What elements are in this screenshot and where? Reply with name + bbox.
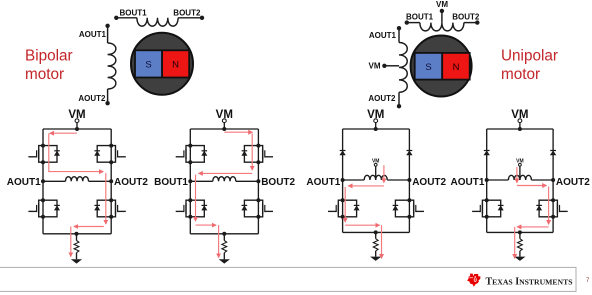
wire: right rail lower (bridge 4) <box>552 217 554 233</box>
node: VM terminal circle (bridge 3) <box>374 119 378 123</box>
wire: VM feed (bridge 3) <box>375 123 377 129</box>
junction: BOUT2 node dot (bridge 2) <box>256 179 260 183</box>
svg-text:AOUT2: AOUT2 <box>368 94 396 103</box>
svg-text:Unipolar: Unipolar <box>501 47 558 64</box>
wire: centre tap feed (bridge 4) <box>519 166 521 180</box>
wire: left rail lower (bridge 3) <box>342 217 344 233</box>
wire: bipolar phase B lead left <box>116 17 137 19</box>
wire: right rail lower (bridge 3) <box>408 217 410 233</box>
junction: VM node dot (bridge 3) <box>374 127 378 131</box>
magnet S pole (bipolar) <box>135 50 162 77</box>
svg-text:motor: motor <box>25 66 64 83</box>
wire: sense resistor bottom lead (bridge 3) <box>375 251 377 257</box>
svg-text:BOUT1: BOUT1 <box>120 9 148 18</box>
node: AOUT1 terminal <box>105 24 109 28</box>
svg-text:S: S <box>145 60 151 71</box>
junction: AOUT2 node dot (bridge 4) <box>551 178 555 182</box>
transistor: low-side left MOSFET (bridge 2) <box>176 198 208 219</box>
node: phase A VM tap <box>382 64 386 68</box>
wire: bipolar phase A top lead <box>107 26 109 43</box>
transistor: low-side right MOSFET (bridge 1) <box>94 198 126 219</box>
current path: down through sense resistor to ground (bridge 3) <box>381 225 383 258</box>
transistor: low-side left MOSFET (bridge 1) <box>28 198 60 219</box>
wire: winding wire left (bridge 4) <box>487 179 509 181</box>
ground (bridge 2) <box>219 259 230 263</box>
node: BOUT1 terminal <box>114 16 118 20</box>
wire: VM feed (bridge 2) <box>223 123 225 129</box>
diode: left clamp diode (bridge 4) <box>484 151 490 156</box>
svg-text:VM: VM <box>436 0 448 9</box>
node: centre tap VM circle (bridge 4) <box>519 163 522 166</box>
wire: right rail mid (bridge 2) <box>257 162 259 200</box>
junction: BOUT1 node dot (bridge 2) <box>188 179 192 183</box>
rotor: unipolar motor body <box>411 36 472 97</box>
svg-text:BOUT2: BOUT2 <box>261 177 295 188</box>
junction: AOUT2 node dot (bridge 1) <box>109 179 113 183</box>
svg-text:motor: motor <box>501 66 540 83</box>
svg-text:VM: VM <box>369 62 381 71</box>
transistor: high-side right MOSFET (bridge 2) <box>241 144 273 165</box>
svg-text:AOUT1: AOUT1 <box>7 177 41 188</box>
junction: VM node dot (bridge 4) <box>518 127 522 131</box>
inductor: motor winding (bridge 3) <box>364 175 387 180</box>
ground (bridge 1) <box>71 259 82 263</box>
ground (bridge 3) <box>370 257 381 261</box>
inductor: motor winding (bridge 2) <box>213 177 236 182</box>
wire: unipolar phase B lead right <box>464 22 477 24</box>
magnet N pole (bipolar) <box>162 50 189 77</box>
resistor: current sense (bridge 2) <box>222 241 227 253</box>
wire: sense resistor top lead (bridge 1) <box>76 234 78 241</box>
wire: bottom rail (bridge 4) <box>487 231 553 233</box>
wire: right rail upper (bridge 1) <box>110 129 112 146</box>
wire: left rail upper (bridge 4) <box>486 129 488 200</box>
svg-text:AOUT1: AOUT1 <box>450 177 484 188</box>
current path: down right low-side (bridge 1) <box>105 173 107 224</box>
node: VM terminal circle (bridge 1) <box>75 119 79 123</box>
junction: sense node dot (bridge 1) <box>75 232 79 236</box>
svg-text:S: S <box>425 62 431 73</box>
wire: sense resistor bottom lead (bridge 1) <box>76 253 78 260</box>
resistor: current sense (bridge 4) <box>518 239 523 251</box>
node: BOUT2 terminal (unipolar) <box>475 20 479 24</box>
current path: from centre tap down winding (bridge 4) <box>516 167 518 183</box>
junction: VM node dot (bridge 2) <box>222 127 226 131</box>
svg-text:AOUT2: AOUT2 <box>78 94 106 103</box>
wire: right rail lower (bridge 1) <box>110 217 112 234</box>
wire: bottom rail (bridge 1) <box>43 233 111 235</box>
junction: AOUT1 node dot (bridge 1) <box>41 179 45 183</box>
wire: bipolar phase B lead right <box>178 17 202 19</box>
node: VM terminal circle (bridge 4) <box>518 119 522 123</box>
wire: winding wire right (bridge 1) <box>89 180 112 182</box>
current path: across to sense leg (bridge 3) <box>345 224 379 226</box>
magnet N pole (unipolar) <box>442 53 470 80</box>
wire: winding wire right (bridge 4) <box>531 179 553 181</box>
transistor: high-side left MOSFET (bridge 2) <box>176 144 208 165</box>
current path: down through sense resistor to ground (bridge 2) <box>218 225 220 257</box>
svg-text:BOUT1: BOUT1 <box>154 177 188 188</box>
svg-text:AOUT1: AOUT1 <box>369 31 397 40</box>
wire: right rail upper (bridge 3) <box>408 129 410 200</box>
wire: winding wire left (bridge 2) <box>190 180 213 182</box>
svg-text:N: N <box>172 60 179 71</box>
wire: right rail upper (bridge 2) <box>257 129 259 146</box>
current path: down right high-side (bridge 2) <box>251 134 253 171</box>
current path: from VM to left high-side (bridge 1) <box>50 132 77 134</box>
wire: left rail mid (bridge 1) <box>42 162 44 200</box>
magnet S pole (unipolar) <box>415 53 443 80</box>
current path: across to sense leg (bridge 1) <box>74 226 104 228</box>
junction: sense node dot (bridge 2) <box>222 232 226 236</box>
svg-text:N: N <box>453 62 460 73</box>
wire: bipolar phase A bottom lead <box>107 89 109 103</box>
wire: unipolar phase A bottom lead <box>398 92 400 106</box>
current path: down right low-side (bridge 4) <box>548 187 550 225</box>
current path: down left high-side and across to AOUT2 (bridge 1) <box>49 133 103 171</box>
wire: sense resistor top lead (bridge 3) <box>375 232 377 238</box>
current path: across to AOUT1 (bridge 3) <box>348 185 384 187</box>
wire: VM feed (bridge 1) <box>76 123 78 129</box>
current path: down through sense resistor to ground (bridge 1) <box>70 227 72 257</box>
wire: centre tap feed (bridge 3) <box>375 166 377 180</box>
transistor: high-side left MOSFET (bridge 1) <box>28 144 60 165</box>
svg-text:BOUT2: BOUT2 <box>452 12 480 21</box>
node: AOUT1 terminal (unipolar) <box>397 26 401 30</box>
wire: left rail upper (bridge 2) <box>189 129 191 146</box>
current path: across to sense leg (bridge 4) <box>517 226 548 228</box>
wire: phase B centre tap to VM <box>441 11 443 23</box>
transistor: low-side right MOSFET (bridge 4) <box>536 198 568 219</box>
wire: right rail mid (bridge 1) <box>110 162 112 200</box>
junction: AOUT1 node dot (bridge 4) <box>485 178 489 182</box>
wire: bottom rail (bridge 3) <box>343 231 410 233</box>
svg-text:Bipolar: Bipolar <box>25 47 73 64</box>
wire: left rail lower (bridge 2) <box>189 217 191 234</box>
node: VM terminal circle (bridge 2) <box>222 119 226 123</box>
wire: winding wire left (bridge 3) <box>343 179 365 181</box>
wire: left rail lower (bridge 4) <box>486 217 488 233</box>
wire: top rail (bridge 4) <box>487 128 553 130</box>
junction: AOUT1 node dot (bridge 3) <box>341 178 345 182</box>
svg-text:BOUT2: BOUT2 <box>173 9 201 18</box>
svg-text:AOUT1: AOUT1 <box>79 30 107 39</box>
wire: bottom rail (bridge 2) <box>190 233 258 235</box>
transistor: low-side right MOSFET (bridge 2) <box>241 198 273 219</box>
node: centre tap VM circle (bridge 3) <box>374 163 377 166</box>
current path: down left low-side (bridge 3) <box>344 187 346 222</box>
svg-text:7: 7 <box>586 278 590 284</box>
inductor: bipolar motor phase A winding (AOUT1-AOUT2) <box>108 43 116 89</box>
current path: across to AOUT2 (bridge 4) <box>517 185 547 187</box>
transistor: low-side left MOSFET (bridge 3) <box>328 198 360 219</box>
junction: sense node dot (bridge 3) <box>374 230 378 234</box>
svg-text:AOUT1: AOUT1 <box>306 177 340 188</box>
footer box <box>0 267 576 291</box>
junction: AOUT2 node dot (bridge 3) <box>407 178 411 182</box>
rotor: bipolar motor body <box>131 33 193 95</box>
node: BOUT1 terminal (unipolar) <box>405 20 409 24</box>
transistor: low-side right MOSFET (bridge 3) <box>392 198 424 219</box>
svg-text:BOUT1: BOUT1 <box>406 12 434 21</box>
wire: sense resistor top lead (bridge 4) <box>519 232 521 238</box>
wire: left rail upper (bridge 1) <box>42 129 44 146</box>
wire: left rail upper (bridge 3) <box>342 129 344 200</box>
node: AOUT2 terminal (unipolar) <box>397 104 401 108</box>
wire: sense resistor bottom lead (bridge 2) <box>223 253 225 260</box>
wire: unipolar phase B lead left <box>407 22 420 24</box>
wire: winding wire right (bridge 3) <box>387 179 409 181</box>
node: phase B VM tap <box>440 9 444 13</box>
wire: winding wire right (bridge 2) <box>236 180 259 182</box>
wire: unipolar phase A top lead <box>398 28 400 42</box>
wire: left rail mid (bridge 2) <box>189 162 191 200</box>
ground (bridge 4) <box>514 257 525 261</box>
resistor: current sense (bridge 3) <box>373 239 378 251</box>
wire: right rail upper (bridge 4) <box>552 129 554 200</box>
wire: top rail (bridge 2) <box>190 128 258 130</box>
wire: sense resistor bottom lead (bridge 4) <box>519 251 521 257</box>
inductor: unipolar motor phase B winding (BOUT1-VM-BOUT2) <box>420 23 464 31</box>
wire: winding wire left (bridge 1) <box>43 180 66 182</box>
junction: sense node dot (bridge 4) <box>518 230 522 234</box>
wire: right rail lower (bridge 2) <box>257 217 259 234</box>
wire: left rail lower (bridge 1) <box>42 217 44 234</box>
wire: sense resistor top lead (bridge 2) <box>223 234 225 241</box>
current path: down through sense resistor to ground (bridge 4) <box>514 227 516 258</box>
current path: across to BOUT1 (bridge 2) <box>199 172 253 174</box>
wire: VM feed (bridge 4) <box>519 123 521 129</box>
svg-text:AOUT2: AOUT2 <box>412 177 446 188</box>
junction: VM node dot (bridge 1) <box>75 127 79 131</box>
wire: top rail (bridge 3) <box>343 128 410 130</box>
inductor: unipolar motor phase A winding (AOUT1-VM-AOUT2) <box>399 43 407 93</box>
transistor: high-side right MOSFET (bridge 1) <box>94 144 126 165</box>
inductor: motor winding (bridge 1) <box>66 177 89 182</box>
current path: from VM to right high-side (bridge 2) <box>224 131 252 133</box>
transistor: low-side left MOSFET (bridge 4) <box>472 198 504 219</box>
diode: left clamp diode (bridge 3) <box>339 151 345 156</box>
node: AOUT2 terminal <box>105 101 109 105</box>
node: BOUT2 terminal <box>200 16 204 20</box>
inductor: motor winding (bridge 4) <box>508 175 531 180</box>
wire: top rail (bridge 1) <box>43 128 111 130</box>
diode: right clamp diode (bridge 3) <box>406 151 412 156</box>
diode: right clamp diode (bridge 4) <box>550 151 556 156</box>
current path: from centre tap down winding (bridge 3) <box>383 165 385 182</box>
current path: down left low-side (bridge 2) <box>195 175 197 221</box>
svg-text:AOUT2: AOUT2 <box>114 177 148 188</box>
inductor: bipolar motor phase B winding (BOUT1-BOUT2) <box>137 18 178 26</box>
svg-text:AOUT2: AOUT2 <box>556 177 590 188</box>
TI logo bug <box>467 274 480 287</box>
resistor: current sense (bridge 1) <box>74 241 79 253</box>
current path: across to sense leg (bridge 2) <box>196 224 217 226</box>
wire: phase A centre tap to VM <box>384 65 399 67</box>
svg-text:TEXAS INSTRUMENTS: TEXAS INSTRUMENTS <box>486 276 573 287</box>
